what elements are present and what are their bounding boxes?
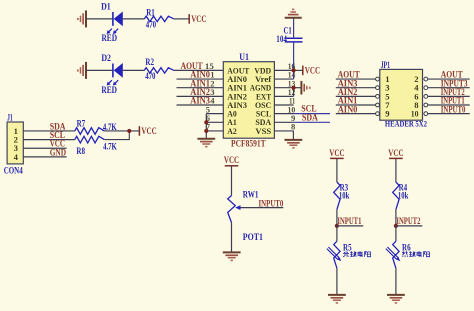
pin circle 6 [424,94,428,98]
wire JP1 pin 5 [336,95,376,97]
resistor R6 (sensor) [393,241,399,268]
wire U1 pin 6 [206,121,223,123]
wire A0-A2 bus down [205,114,207,138]
wire R7 to VCC [104,130,139,132]
pin circle 4 [424,86,428,90]
resistor R7 [75,128,105,135]
wire U1 pin 5 [206,113,223,115]
wire JP1 pin 2 [428,78,470,80]
resistor R8 [75,136,105,143]
svg-text:8: 8 [291,122,296,132]
wire pin16 to VCC [294,69,303,71]
power VCC (R3) [329,148,344,159]
wire SCL net [294,113,330,115]
svg-text:PCF8591T: PCF8591T [231,139,266,149]
svg-text:R6: R6 [402,242,411,252]
svg-text:J1: J1 [7,112,13,122]
wire J1 pin 3 (VCC) [23,147,66,149]
svg-text:R2: R2 [145,57,154,67]
wire AIN0 to U1 [177,78,224,80]
ground (A0/A1/A2) [197,139,215,148]
wire D1 to R1 [123,18,145,20]
power VCC (D1 branch) [189,14,206,24]
svg-text:INPUT1: INPUT1 [337,216,361,226]
wire R2 to U1 pin 15 (AOUT net) [174,69,223,71]
ground (VSS) [285,140,303,149]
wire JP1 pin 1 [336,78,376,80]
ground (RW1) [223,252,241,261]
junction A2 [204,129,208,133]
wire JP1 pin 9 [336,113,376,115]
svg-text:10: 10 [411,109,419,119]
svg-text:R1: R1 [146,7,155,17]
pin circle 2 [424,77,428,81]
svg-text:4: 4 [210,96,215,106]
diode D1 (LED) [107,12,123,35]
svg-text:4: 4 [14,152,19,162]
resistor R2 [144,68,174,73]
wire JP1 pin 8 [428,104,470,106]
wire JP1 pin 3 [336,87,376,89]
svg-text:AIN0: AIN0 [338,104,358,114]
wire J1 pin 2 (SCL) [23,139,75,141]
svg-text:470: 470 [146,20,157,30]
junction Vref/VDD [292,68,296,72]
wire J1 pin 1 (SDA) [23,130,75,132]
svg-text:INPUT2: INPUT2 [396,216,420,226]
resistor R1 [144,16,174,21]
resistor R3 [334,182,340,210]
wire JP1 pin 10 [428,113,470,115]
wire U1 pin 10 [274,113,293,115]
wire U1 pin 16 [274,69,293,71]
svg-text:U1: U1 [239,52,249,62]
svg-text:VCC: VCC [141,126,156,136]
wire node to R5 [336,226,338,241]
connector J1 body [7,122,23,164]
svg-text:R7: R7 [77,118,86,128]
svg-text:9: 9 [385,109,389,119]
op-amp U1 body (PCF8591T) [223,62,274,139]
ground GND2 (left of D2) [77,62,86,79]
wire R3 to node [336,210,338,226]
wire pin13 to ground [294,87,301,89]
value 光敏电阻 (R5 photoresistor) [343,251,371,257]
svg-text:JP1: JP1 [381,60,391,70]
junction R7/R8/VCC [127,129,131,133]
svg-text:RW1: RW1 [243,189,259,199]
wire C1 to pin14 (Vref) [293,43,295,79]
svg-text:10k: 10k [339,191,350,201]
ground (AGND) [301,81,310,95]
svg-text:GND: GND [50,147,67,157]
ground (above C1) [285,9,302,18]
wire VCC to R3 [336,158,338,182]
svg-text:POT1: POT1 [243,232,264,242]
wire U1 pin 11 [274,104,293,106]
wire R4 to node [395,210,397,226]
svg-text:VCC: VCC [224,155,239,165]
junction INPUT1 [335,224,339,228]
junction AGND/EXT [292,86,296,90]
svg-text:HEADER 5X2: HEADER 5X2 [385,119,427,129]
wire R1 to VCC [174,18,189,20]
resistor R5 (sensor) [334,241,340,268]
wire wiper INPUT0 [240,207,283,209]
pin circle 5 [376,94,380,98]
pin circle 7 [376,103,380,107]
wire U1 pin 14 [274,78,293,80]
wire VCC to R4 [395,158,397,182]
wire VCC to RW1 [231,166,233,196]
svg-text:104: 104 [276,34,287,44]
potentiometer RW1 [228,196,236,223]
pin circle 9 [376,112,380,116]
svg-text:INPUT0: INPUT0 [441,104,466,114]
ground GND1 (left of D1) [77,10,86,27]
svg-text:SDA: SDA [302,112,318,122]
wire C1 to ground [293,18,295,38]
wire U1 pin 13 [274,87,293,89]
wire D2 to R2 [123,69,145,71]
wire node to R6 [395,226,397,241]
resistor R4 [393,182,399,210]
pin circle 1 [376,77,380,81]
capacitor C1 [285,38,303,42]
wire pin8 down [292,131,294,140]
svg-text:D1: D1 [101,1,111,11]
ground (R6) [387,295,405,304]
wire U1 pin 8 [274,130,293,132]
svg-text:4.7K: 4.7K [103,141,117,151]
ground (R5) [328,295,346,304]
svg-text:VCC: VCC [388,148,403,158]
diode D2 (LED) [107,63,123,86]
wire U1 pin 7 [206,130,223,132]
wire RW1 to ground [231,223,233,253]
pin circle 8 [424,103,428,107]
wire R8 up to node [104,131,129,140]
power VCC (pullups) [139,126,156,136]
svg-text:RED: RED [101,85,117,95]
wire stub INPUT1 [337,225,363,227]
arrows (R6 sensor) [386,247,401,261]
pin circle 10 [424,112,428,116]
svg-text:CON4: CON4 [4,166,23,176]
wire U1 pin 12 [274,95,293,97]
svg-text:VCC: VCC [329,148,344,158]
svg-text:R5: R5 [343,242,352,252]
svg-text:10k: 10k [398,191,409,201]
wire R6 to ground [395,268,397,295]
wiper arrow RW1 [235,205,240,210]
svg-text:D2: D2 [101,53,111,63]
wire JP1 pin 4 [428,87,470,89]
wire ground to D1 [86,18,113,20]
svg-text:VCC: VCC [305,65,320,75]
wire JP1 pin 7 [336,104,376,106]
junction A1 [204,120,208,124]
svg-text:R8: R8 [76,146,85,156]
svg-text:INPUT0: INPUT0 [259,198,284,208]
wire J1 pin 4 (GND) [23,156,66,158]
value 热敏电阻 (R6 thermistor) [402,251,430,257]
wire R5 to ground [336,268,338,295]
power VCC (U1 VDD) [303,65,320,75]
wire U1 pin 9 [274,121,293,123]
svg-text:RED: RED [102,33,118,43]
arrows (R5 sensor) [327,247,342,261]
wire ground to D2 [86,69,113,71]
wire JP1 pin 6 [428,95,470,97]
connector JP1 body [380,69,423,120]
pin circle 3 [376,86,380,90]
wire AIN1 to U1 [177,87,224,89]
svg-text:A2: A2 [227,126,237,136]
wire stub INPUT2 [396,225,422,227]
svg-text:VSS: VSS [255,126,271,136]
power VCC (RW1) [224,155,239,166]
power VCC (R4) [388,148,403,159]
junction INPUT2 [394,224,398,228]
svg-text:VCC: VCC [191,14,206,24]
wire SDA net [294,121,330,123]
wire AIN3 to U1 [177,104,224,106]
wire AIN2 to U1 [177,95,224,97]
wire pin12 up to pin13 [293,88,295,97]
svg-text:470: 470 [145,71,156,81]
